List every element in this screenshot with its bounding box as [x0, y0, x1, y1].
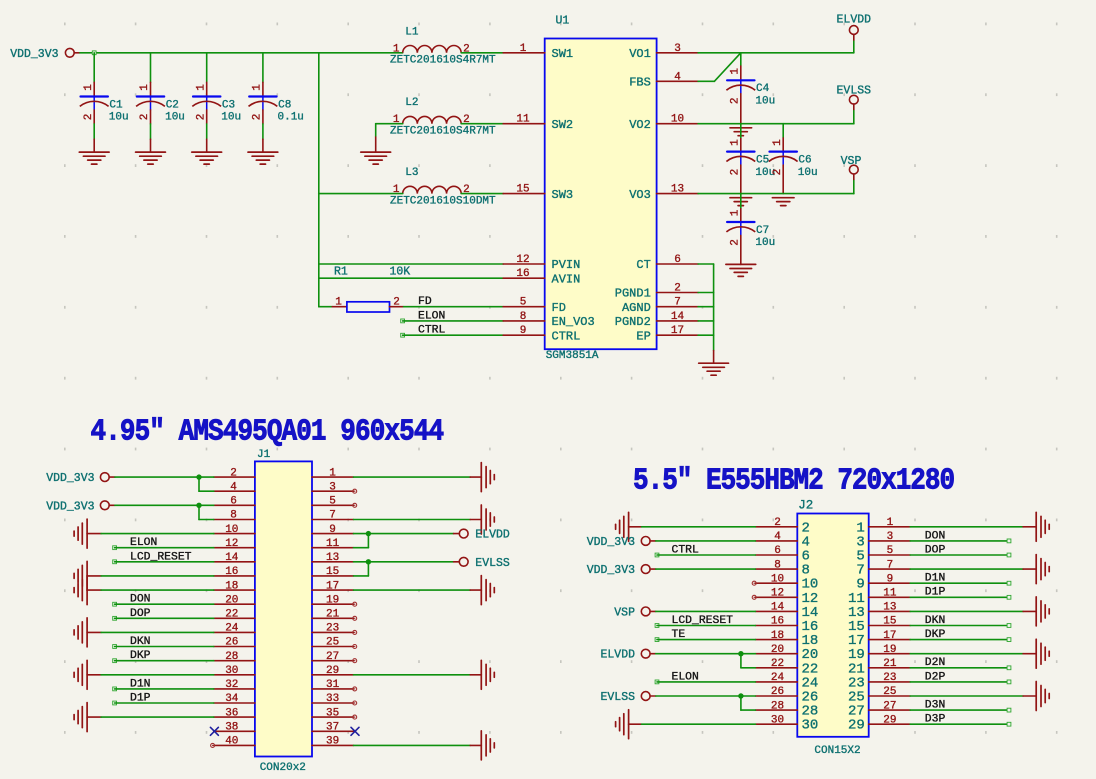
svg-text:17: 17: [883, 630, 896, 642]
wire J1 pin 1 to ground: [354, 476, 471, 478]
wire VSP to J2 pin 14: [656, 610, 756, 612]
svg-text:2: 2: [83, 114, 95, 121]
svg-text:22: 22: [771, 658, 784, 670]
svg-text:2: 2: [729, 97, 741, 104]
unconnected end J1 pin 31: [353, 687, 357, 691]
svg-text:CTRL: CTRL: [552, 329, 581, 343]
J1 pin 30: [214, 665, 255, 677]
ground at J1 pin 1: [470, 463, 494, 492]
svg-text:9: 9: [329, 524, 336, 536]
svg-text:13: 13: [671, 184, 684, 196]
svg-text:SW1: SW1: [552, 47, 574, 61]
svg-text:29: 29: [848, 718, 865, 734]
wire C7 link: [740, 194, 742, 209]
wire to J2 pin 22: [741, 654, 756, 668]
wire C5 link: [740, 124, 742, 139]
svg-text:2: 2: [774, 517, 781, 529]
J2 pin 15: [848, 616, 910, 635]
wire to J1 pin 4: [199, 477, 214, 491]
ground at J1 pin 16: [74, 561, 101, 590]
svg-text:L3: L3: [405, 167, 418, 179]
svg-text:CTRL: CTRL: [418, 325, 446, 337]
wire FD: [404, 306, 504, 308]
svg-text:15: 15: [883, 616, 896, 628]
capacitor C8: [249, 82, 304, 124]
svg-text:C3: C3: [222, 99, 235, 111]
J2 pin 30: [755, 714, 818, 733]
connector J2 body: [797, 498, 868, 757]
U1 pin 9 (CTRL): [503, 325, 580, 343]
J2 pin 25: [848, 686, 910, 705]
wire AVIN: [319, 277, 503, 279]
svg-text:10u: 10u: [221, 112, 241, 124]
junction J1 pin6/8: [196, 503, 201, 508]
svg-text:10: 10: [225, 524, 238, 536]
J2 pin 29: [848, 714, 910, 733]
wire ground to J1 pin 16: [101, 575, 214, 577]
svg-text:ELON: ELON: [418, 310, 445, 322]
unconnected end J1 pin 21: [353, 616, 357, 620]
junction J1 pin13/15: [366, 559, 371, 564]
svg-text:CTRL: CTRL: [672, 545, 700, 557]
wire to J1 pin 15: [354, 562, 369, 576]
wire C1 tap: [93, 53, 95, 83]
svg-text:37: 37: [326, 722, 339, 734]
svg-text:DOP: DOP: [925, 544, 946, 556]
J2 pin 18: [755, 630, 818, 649]
J1 pin 8: [214, 510, 255, 522]
svg-text:DON: DON: [130, 594, 151, 606]
label DOP at J2: [910, 544, 1011, 556]
svg-text:21: 21: [326, 609, 340, 621]
svg-text:ELVDD: ELVDD: [600, 649, 635, 662]
svg-text:9: 9: [520, 325, 527, 337]
wire C8 to ground: [262, 124, 264, 139]
label DKP at J2: [910, 629, 1011, 642]
inductor L2: [390, 97, 496, 137]
U1 pin 5 (FD): [503, 297, 566, 315]
svg-text:23: 23: [883, 672, 896, 684]
svg-text:U1: U1: [556, 15, 570, 28]
svg-text:ELVDD: ELVDD: [837, 14, 872, 27]
wire to J2 pin 28: [741, 696, 756, 710]
wire ELVDD to J2 pin 20: [656, 653, 756, 655]
svg-text:16: 16: [225, 566, 238, 578]
svg-text:7: 7: [329, 510, 336, 522]
J2 pin 5: [856, 545, 910, 564]
label CTRL: [401, 325, 504, 337]
svg-text:ZETC201610S4R7MT: ZETC201610S4R7MT: [390, 55, 496, 67]
J1 pin 31: [312, 679, 354, 691]
J1 pin 14: [214, 552, 255, 564]
svg-text:19: 19: [883, 644, 896, 656]
svg-text:1: 1: [393, 43, 400, 55]
svg-text:D3N: D3N: [925, 700, 946, 712]
svg-text:EP: EP: [636, 329, 650, 343]
svg-text:10: 10: [671, 114, 684, 126]
ground at J1 pin 17: [470, 576, 494, 605]
no-connect J1 pin 38: [210, 727, 218, 735]
svg-text:D1N: D1N: [130, 678, 151, 690]
svg-text:SGM3851A: SGM3851A: [546, 350, 599, 362]
svg-text:D1P: D1P: [925, 587, 946, 599]
ground at J2 pin 2: [616, 512, 642, 541]
U1 pin 16 (AVIN): [503, 268, 580, 286]
svg-text:EN_VO3: EN_VO3: [552, 315, 595, 329]
svg-text:2: 2: [729, 239, 741, 246]
junction J2 pin26/28: [738, 693, 743, 698]
svg-text:20: 20: [771, 644, 784, 656]
label CTRL at J2: [655, 545, 755, 557]
svg-text:1: 1: [83, 84, 95, 91]
J2 pin 20: [755, 644, 818, 663]
svg-text:D1P: D1P: [130, 693, 151, 705]
power port VSP: [841, 155, 862, 180]
wire VDD_3V3 to J1 pin 2: [115, 476, 214, 478]
J2 pin 17: [848, 630, 910, 649]
wire J2 pin 7 to ground: [910, 568, 1023, 570]
label ELON at J2: [655, 671, 755, 683]
svg-text:25: 25: [326, 637, 339, 649]
wire C2 tap: [150, 53, 152, 83]
svg-text:2: 2: [195, 114, 207, 121]
svg-text:39: 39: [326, 736, 339, 748]
svg-text:2: 2: [729, 169, 741, 176]
J2 pin 14: [755, 602, 818, 621]
svg-text:5.5" E555HBM2 720x1280: 5.5" E555HBM2 720x1280: [633, 464, 954, 498]
power port VDD_3V3 at J1 pin 6: [46, 500, 115, 513]
svg-text:5: 5: [329, 496, 336, 508]
J1 pin 4: [214, 481, 255, 493]
wire J2 pin 13 to ground: [910, 610, 1023, 612]
svg-text:21: 21: [883, 658, 897, 670]
svg-text:2: 2: [139, 114, 151, 121]
J2 pin 4: [755, 531, 810, 550]
capacitor C6: [769, 138, 818, 194]
ground under C7: [726, 264, 756, 276]
J1 pin 25: [312, 637, 354, 649]
svg-text:8: 8: [520, 311, 527, 323]
ground at J2 pin 19: [1023, 639, 1049, 668]
label D2P at J2: [910, 671, 1011, 684]
svg-text:10u: 10u: [165, 112, 185, 124]
J2 pin 11: [848, 588, 910, 607]
svg-text:ELVDD: ELVDD: [475, 529, 510, 542]
unconnected end J1 pin 3: [353, 489, 357, 493]
unconnected end J1 pin 40: [211, 743, 215, 747]
svg-text:17: 17: [326, 580, 339, 592]
svg-text:8: 8: [774, 559, 781, 571]
power port EVLSS: [837, 85, 872, 110]
ground under U1 bus: [699, 351, 729, 376]
J1 pin 20: [214, 594, 255, 606]
capacitor C3: [192, 82, 241, 124]
U1 pin 4 (FBS): [629, 71, 698, 89]
wire VO3 to VSP: [698, 179, 854, 193]
ground at J1 pin 24: [74, 618, 101, 647]
J1 pin 36: [214, 707, 255, 719]
svg-text:SW2: SW2: [552, 118, 574, 132]
svg-text:14: 14: [771, 602, 785, 614]
wire FBS diagonal: [698, 53, 741, 82]
power port VDD_3V3 at J1 pin 2: [46, 472, 115, 485]
power port VDD_3V3 at J2 pin 8: [587, 564, 656, 577]
label DKN at J2: [910, 615, 1011, 627]
svg-text:C4: C4: [756, 83, 770, 95]
power port VDD_3V3: [10, 48, 80, 61]
svg-text:27: 27: [883, 700, 896, 712]
svg-text:1: 1: [520, 43, 527, 55]
svg-text:10u: 10u: [109, 112, 129, 124]
unconnected end J1 pin 27: [353, 659, 357, 663]
wire J2 pin 19 to ground: [910, 653, 1023, 655]
U1 pin 3 (VO1): [629, 43, 698, 61]
svg-text:11: 11: [516, 114, 530, 126]
svg-text:4.95" AMS495QA01 960x544: 4.95" AMS495QA01 960x544: [91, 415, 445, 449]
junction J1 pin9/11: [366, 531, 371, 536]
svg-text:AGND: AGND: [622, 301, 651, 315]
svg-text:SW3: SW3: [552, 188, 574, 202]
J2 pin 16: [755, 616, 818, 635]
resistor R1: [332, 265, 410, 312]
ground at J1 pin 18: [74, 576, 101, 605]
wire trunk to R1: [319, 306, 333, 308]
svg-text:4: 4: [230, 481, 237, 493]
svg-text:C2: C2: [166, 99, 179, 111]
svg-text:15: 15: [326, 566, 339, 578]
label FD: [418, 296, 432, 308]
svg-text:1: 1: [729, 209, 741, 216]
unconnected end J2 pin 12: [752, 595, 756, 599]
J1 pin 26: [214, 637, 255, 649]
wire EP: [698, 334, 714, 336]
svg-text:FBS: FBS: [629, 76, 651, 90]
label DON at J2: [910, 530, 1011, 543]
junction J2 pin20/22: [738, 651, 743, 656]
svg-text:PVIN: PVIN: [552, 258, 581, 272]
label D3P at J2: [910, 714, 1011, 727]
J1 pin 16: [214, 566, 255, 578]
wire J2 pin 1 to ground: [910, 526, 1023, 528]
J1 pin 27: [312, 651, 354, 663]
svg-text:38: 38: [225, 722, 238, 734]
svg-text:C6: C6: [798, 154, 811, 166]
svg-text:5: 5: [887, 545, 894, 557]
wire ground to J1 pin 30: [101, 674, 214, 676]
svg-text:28: 28: [771, 700, 784, 712]
label D3N at J2: [910, 700, 1011, 713]
label DOP at J1: [113, 608, 214, 620]
capacitor C1: [80, 82, 129, 124]
U1 pin 1 (SW1): [503, 43, 573, 61]
svg-text:10u: 10u: [755, 96, 775, 108]
ground at J1 pin 36: [74, 703, 101, 732]
J1 pin 13: [312, 552, 354, 564]
svg-text:PGND1: PGND1: [615, 287, 651, 301]
J2 pin 1: [856, 517, 910, 536]
U1 pin 8 (EN_VO3): [503, 311, 595, 329]
J1 pin 3: [312, 481, 354, 493]
svg-text:2: 2: [230, 467, 237, 479]
svg-text:ELON: ELON: [130, 537, 157, 549]
J2 pin 27: [848, 700, 910, 719]
unconnected end J1 pin 25: [353, 645, 357, 649]
ground under L2: [361, 137, 391, 164]
wire AGND: [698, 306, 714, 308]
svg-text:D2P: D2P: [925, 671, 946, 683]
J2 pin 2: [755, 517, 810, 536]
wire PGND1: [698, 292, 714, 294]
unconnected end J1 pin 5: [353, 503, 357, 507]
ground at J1 pin 29: [470, 660, 494, 689]
svg-text:CON20x2: CON20x2: [260, 762, 306, 774]
J1 pin 34: [214, 693, 255, 705]
U1 pin 11 (SW2): [503, 114, 573, 132]
svg-text:VDD_3V3: VDD_3V3: [46, 472, 94, 485]
J1 pin 12: [214, 538, 255, 550]
J1 pin 22: [214, 609, 255, 621]
J1 pin 35: [312, 707, 354, 719]
wire ground to J1 pin 10: [101, 533, 214, 535]
wire J2 pin 25 to ground: [910, 695, 1023, 697]
svg-text:CON15X2: CON15X2: [814, 745, 860, 757]
svg-text:24: 24: [771, 672, 785, 684]
svg-text:DOP: DOP: [130, 608, 151, 620]
svg-text:L2: L2: [405, 97, 418, 109]
J2 pin 8: [755, 559, 810, 578]
svg-text:AVIN: AVIN: [552, 272, 581, 286]
wire C3 to ground: [206, 124, 208, 139]
svg-text:1: 1: [729, 139, 741, 146]
svg-text:30: 30: [802, 718, 819, 734]
svg-text:2: 2: [674, 283, 681, 295]
power port EVLSS at J1: [454, 557, 510, 570]
svg-text:10u: 10u: [798, 167, 818, 179]
label D1P at J2: [910, 587, 1011, 600]
wire VDD_3V3 to J2 pin 8: [656, 568, 756, 570]
svg-text:10: 10: [771, 573, 784, 585]
ground under C8: [248, 139, 278, 164]
svg-text:1: 1: [772, 139, 784, 146]
svg-text:18: 18: [225, 580, 238, 592]
ground at J1 pin 30: [74, 660, 101, 689]
svg-text:1: 1: [729, 68, 741, 75]
ground under C3: [192, 139, 222, 164]
svg-text:DKN: DKN: [925, 615, 946, 627]
wire J1 pin 13 to EVLSS: [354, 561, 454, 563]
svg-text:C8: C8: [278, 99, 291, 111]
svg-text:14: 14: [671, 311, 685, 323]
svg-text:ZETC201610S4R7MT: ZETC201610S4R7MT: [390, 125, 496, 137]
wire VDD_3V3 rail: [80, 52, 403, 54]
label D1N at J1: [113, 678, 214, 690]
J1 pin 1: [312, 467, 354, 479]
ground at J1 pin 39: [470, 731, 494, 760]
U1 pin 14 (PGND2): [615, 311, 698, 329]
svg-text:32: 32: [225, 679, 238, 691]
J1 pin 19: [312, 594, 354, 606]
J2 pin 9: [856, 573, 910, 592]
svg-text:16: 16: [516, 268, 529, 280]
power port ELVDD at J2 pin 20: [600, 649, 655, 662]
svg-text:C5: C5: [756, 154, 769, 166]
capacitor C2: [136, 82, 185, 124]
ground under C4: [730, 128, 752, 136]
label D1N at J2: [910, 573, 1011, 586]
J1 pin 11: [312, 538, 354, 550]
ground at J1 pin 7: [470, 505, 494, 534]
svg-text:30: 30: [771, 714, 784, 726]
J2 pin 28: [755, 700, 818, 719]
svg-text:LCD_RESET: LCD_RESET: [130, 551, 192, 563]
wire ground to J1 pin 24: [101, 631, 214, 633]
wire C4 tap: [740, 53, 742, 66]
J1 pin 23: [312, 623, 354, 635]
unconnected end J1 pin 35: [353, 715, 357, 719]
unconnected end J2 pin 10: [752, 581, 756, 585]
svg-text:LCD_RESET: LCD_RESET: [672, 615, 734, 627]
svg-text:6: 6: [774, 545, 781, 557]
svg-text:15: 15: [516, 184, 529, 196]
J2 pin 22: [755, 658, 818, 677]
wire ground to J2 pin 2: [642, 526, 756, 528]
U1 pin 13 (VO3): [629, 184, 698, 202]
svg-text:10u: 10u: [755, 237, 775, 249]
wire L3 branch: [319, 193, 403, 195]
svg-text:1: 1: [329, 467, 336, 479]
J2 pin 21: [848, 658, 910, 677]
svg-text:VDD_3V3: VDD_3V3: [46, 500, 94, 513]
J1 pin 15: [312, 566, 354, 578]
J2 pin 6: [755, 545, 810, 564]
svg-text:VO1: VO1: [629, 47, 651, 61]
svg-text:29: 29: [326, 665, 339, 677]
svg-text:12: 12: [516, 254, 529, 266]
wire CT to ground bus: [698, 264, 714, 351]
svg-text:11: 11: [883, 588, 897, 600]
IC U1 body: [545, 15, 657, 363]
label DKP at J1: [113, 650, 214, 662]
J1 pin 18: [214, 580, 255, 592]
wire PGND2: [698, 320, 714, 322]
ground at J1 pin 10: [74, 519, 101, 548]
capacitor C7: [726, 209, 775, 265]
wire PVIN: [319, 263, 503, 265]
J2 pin 13: [848, 602, 910, 621]
unconnected end J1 pin 33: [353, 701, 357, 705]
svg-text:27: 27: [326, 651, 339, 663]
J1 pin 10: [214, 524, 255, 536]
svg-text:L1: L1: [405, 26, 419, 38]
wire ground to J1 pin 36: [101, 716, 214, 718]
svg-text:1: 1: [887, 517, 894, 529]
svg-text:16: 16: [771, 616, 784, 628]
J2 pin 26: [755, 686, 818, 705]
J1 pin 40: [214, 736, 255, 748]
wire VDD_3V3 to J2 pin 4: [656, 540, 756, 542]
svg-text:22: 22: [225, 609, 238, 621]
svg-text:PGND2: PGND2: [615, 315, 651, 329]
wire VDD_3V3 to J1 pin 6: [115, 504, 214, 506]
ground under C6: [772, 198, 794, 206]
ground at J2 pin 13: [1023, 597, 1049, 626]
J1 pin 24: [214, 623, 255, 635]
svg-text:30: 30: [225, 665, 238, 677]
J2 pin 23: [848, 672, 910, 691]
junction at C1 tap: [92, 51, 96, 55]
power port ELVDD at J1: [454, 529, 510, 542]
J1 pin 6: [214, 496, 255, 508]
